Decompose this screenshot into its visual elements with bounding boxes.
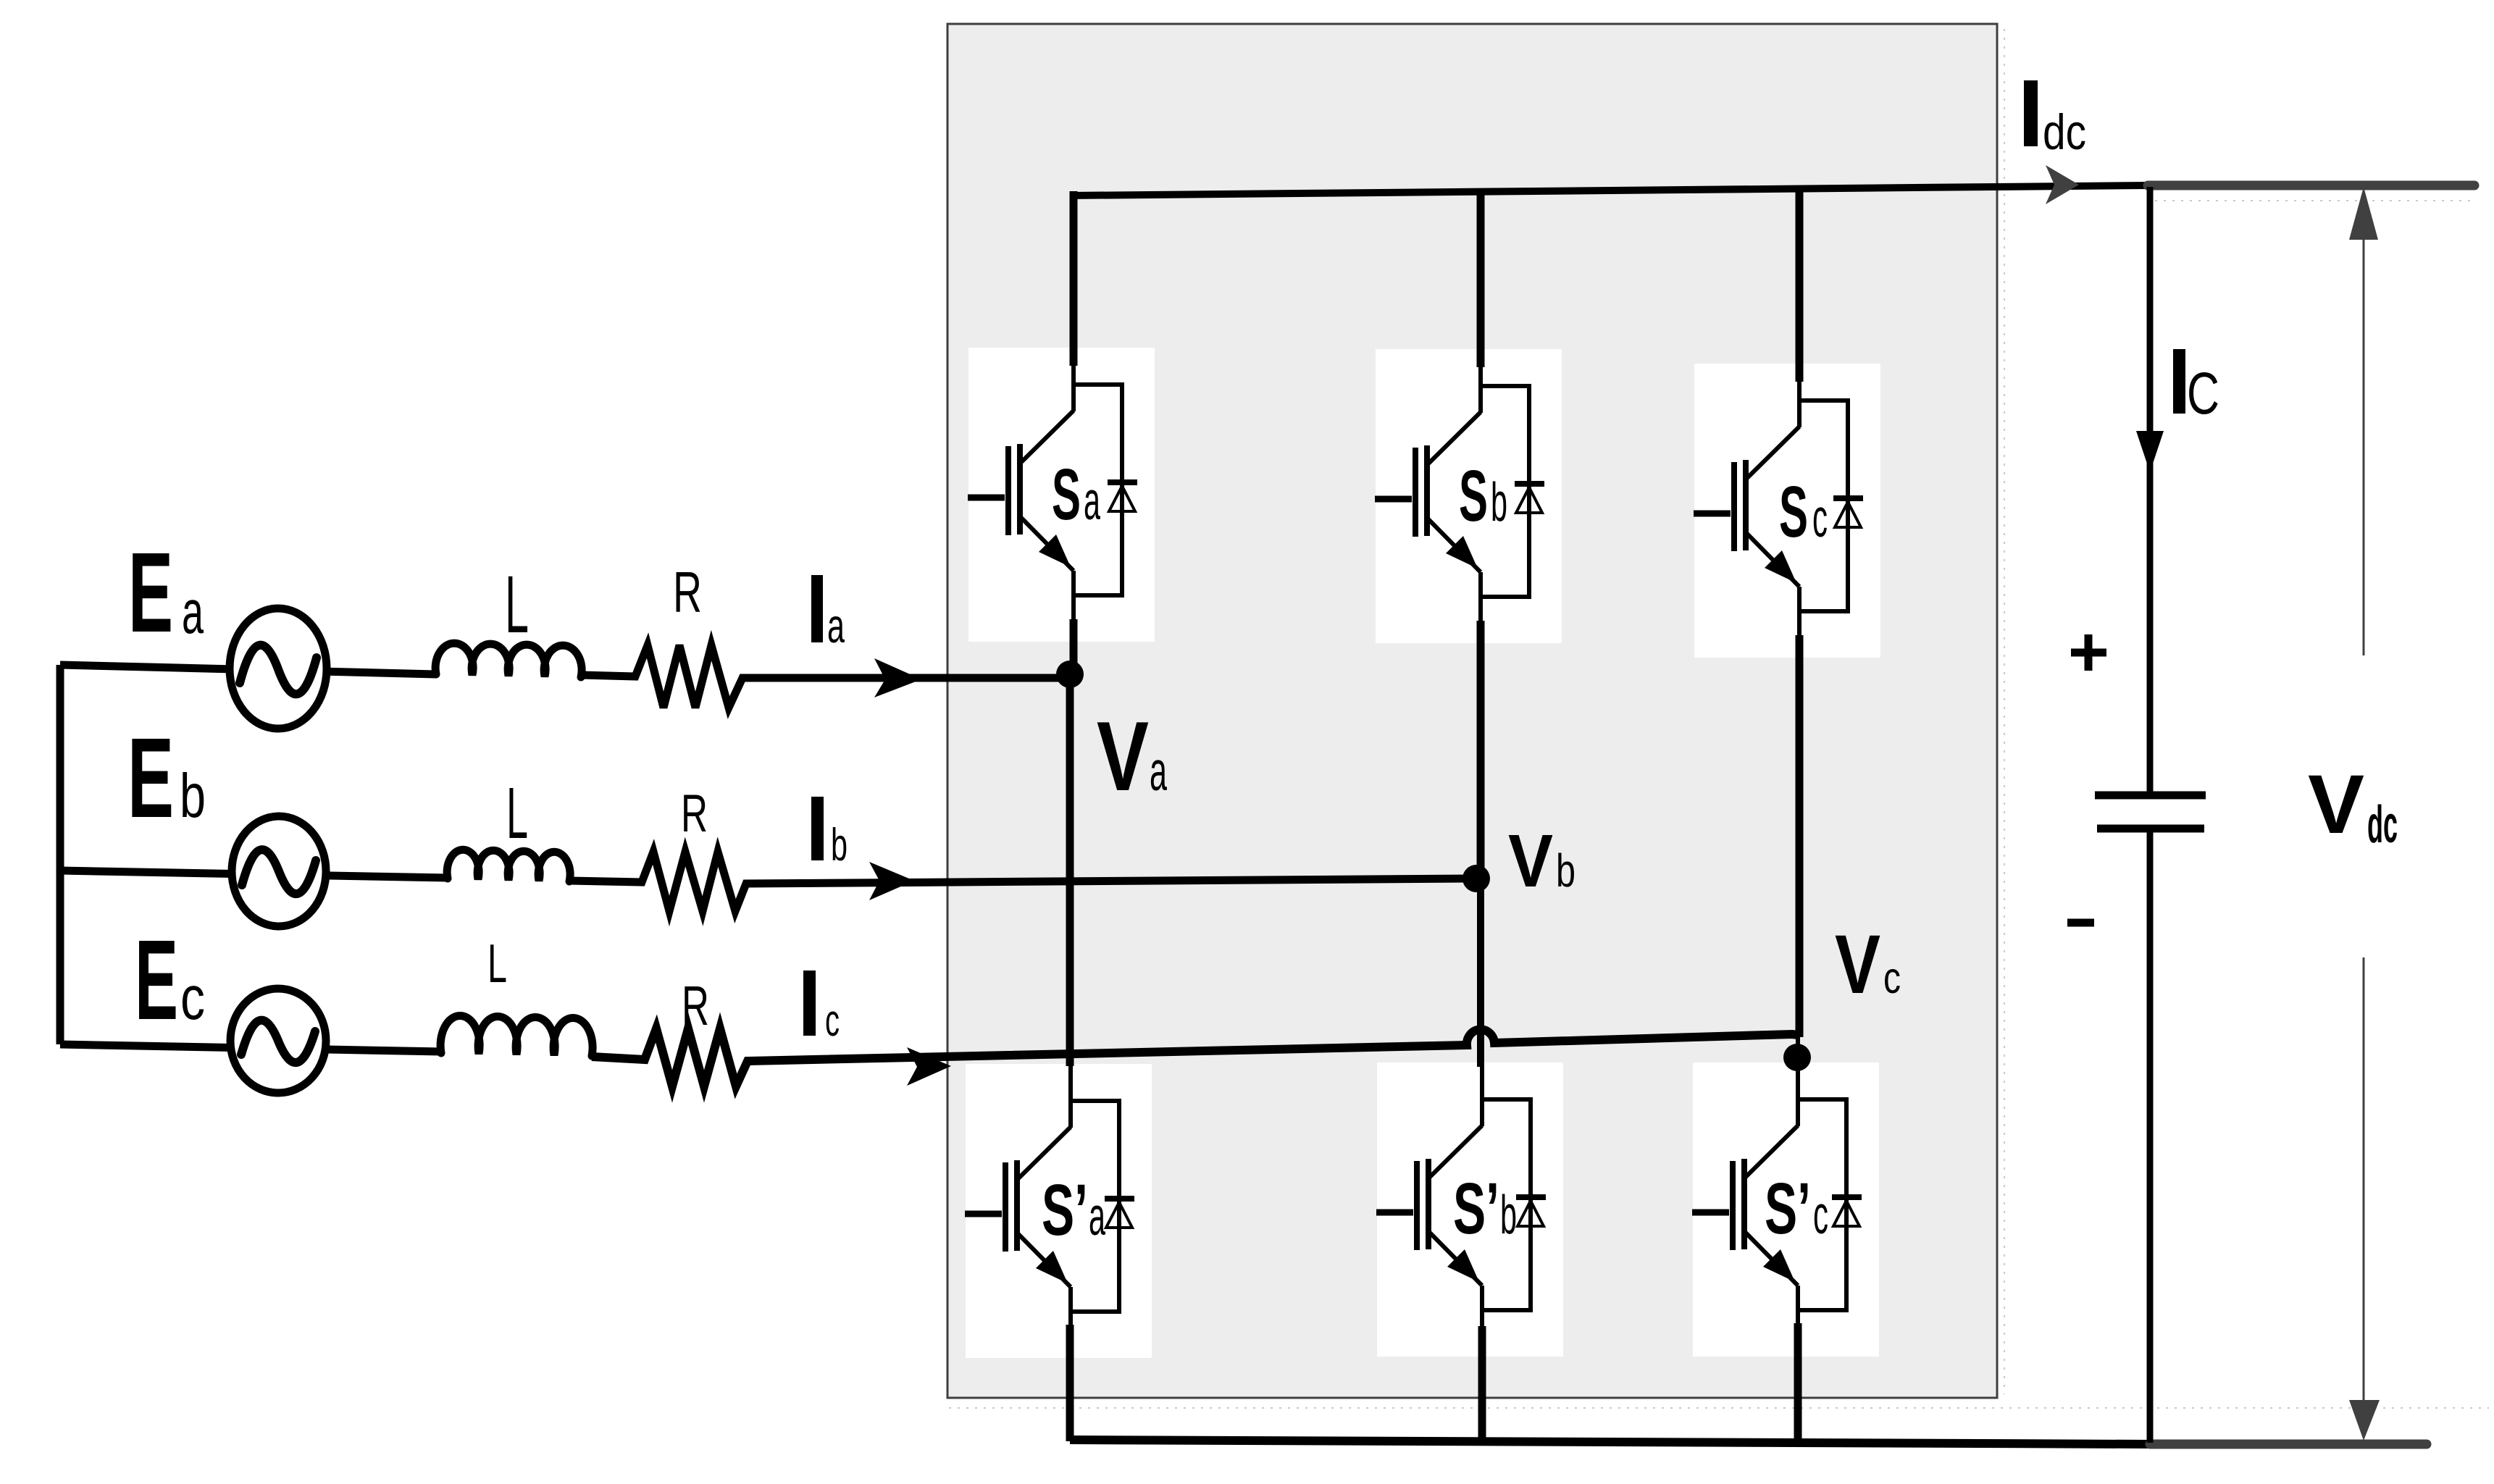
svg-text:S’: S’	[1453, 1168, 1499, 1249]
svg-text:c: c	[825, 996, 840, 1046]
svg-text:E: E	[128, 529, 173, 656]
svg-text:R: R	[681, 784, 708, 843]
svg-text:L: L	[505, 559, 529, 650]
svg-text:R: R	[673, 560, 702, 624]
svg-text:a: a	[1150, 740, 1167, 802]
svg-text:c: c	[1883, 953, 1901, 1002]
svg-text:S’: S’	[1042, 1170, 1088, 1251]
svg-text:L: L	[487, 933, 507, 994]
svg-text:C: C	[2187, 361, 2219, 427]
svg-text:E: E	[135, 917, 178, 1044]
svg-text:b: b	[1491, 471, 1507, 532]
svg-text:V: V	[1508, 819, 1553, 902]
svg-text:V: V	[1835, 918, 1880, 1011]
svg-text:b: b	[1500, 1184, 1517, 1245]
svg-text:a: a	[182, 578, 204, 647]
svg-text:L: L	[506, 773, 528, 854]
svg-text:dc: dc	[2367, 796, 2398, 854]
svg-text:S: S	[1779, 471, 1808, 553]
svg-text:S: S	[1052, 454, 1081, 535]
svg-text:V: V	[1097, 701, 1149, 811]
svg-text:b: b	[180, 762, 206, 831]
svg-text:V: V	[2308, 758, 2364, 851]
svg-text:S’: S’	[1765, 1168, 1811, 1249]
svg-text:a: a	[1089, 1186, 1105, 1246]
svg-text:R: R	[682, 975, 709, 1037]
svg-text:c: c	[1812, 487, 1828, 548]
svg-text:c: c	[180, 964, 205, 1033]
svg-text:E: E	[127, 715, 174, 842]
svg-text:c: c	[1813, 1184, 1828, 1245]
svg-text:dc: dc	[2043, 104, 2086, 160]
svg-text:a: a	[1084, 470, 1100, 531]
svg-text:b: b	[1556, 844, 1576, 897]
svg-text:b: b	[831, 820, 848, 871]
svg-text:a: a	[827, 599, 845, 653]
svg-text:S: S	[1459, 456, 1488, 537]
